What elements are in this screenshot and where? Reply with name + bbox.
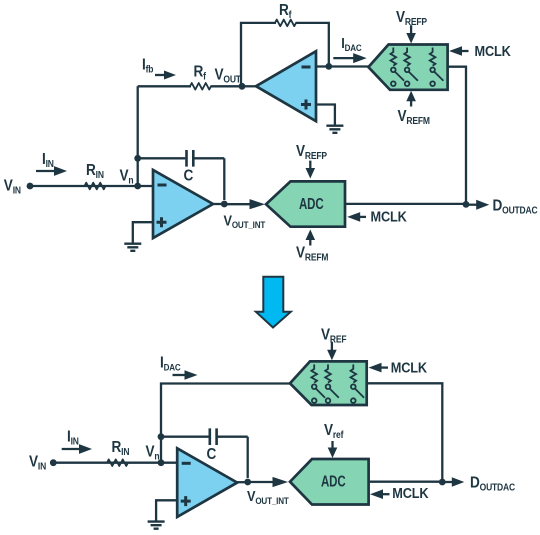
DAC bottom body <box>290 361 367 405</box>
svg-text:VIN: VIN <box>29 454 47 472</box>
svg-text:MCLK: MCLK <box>475 43 511 59</box>
node Vn top <box>120 168 142 190</box>
label VREFM DAC top <box>398 91 431 127</box>
transition arrow <box>256 277 291 328</box>
svg-text:DOUTDAC: DOUTDAC <box>493 198 538 216</box>
DAC bottom switch 3 <box>351 364 365 403</box>
ground A3 <box>148 522 165 529</box>
node DOUTDAC top <box>463 198 538 216</box>
wire input top <box>30 185 153 187</box>
svg-text:VOUT_INT: VOUT_INT <box>247 487 289 506</box>
svg-text:Vref: Vref <box>324 422 344 440</box>
DAC top switch 2 <box>404 48 418 86</box>
svg-text:DOUTDAC: DOUTDAC <box>470 475 515 493</box>
svg-text:Vn: Vn <box>120 168 134 186</box>
svg-text:VREF: VREF <box>321 327 347 345</box>
svg-text:C: C <box>207 446 217 463</box>
svg-text:IIN: IIN <box>67 429 79 447</box>
wire input bottom <box>53 462 177 464</box>
ADC bottom body <box>290 459 369 505</box>
DAC top switch 3 <box>430 48 444 86</box>
wire ADC out bottom <box>369 481 443 483</box>
svg-text:Rf: Rf <box>279 2 292 20</box>
op-amp A2 top <box>256 51 316 121</box>
svg-text:VOUT: VOUT <box>215 67 242 85</box>
op-amp A1 integrator top <box>153 170 213 238</box>
junction cap branch bottom <box>158 433 165 440</box>
svg-text:Vn: Vn <box>146 444 160 462</box>
ground A1 <box>124 244 141 251</box>
resistor RIN top <box>85 162 106 189</box>
svg-text:MCLK: MCLK <box>391 360 427 376</box>
DAC bottom switch 1 <box>311 364 325 403</box>
svg-text:Ifb: Ifb <box>142 57 154 75</box>
label MCLK ADC top <box>347 209 407 225</box>
svg-text:ADC: ADC <box>299 194 324 212</box>
label VREF DAC bottom <box>321 327 347 361</box>
current label IDAC top <box>333 34 366 63</box>
current label IDAC bottom <box>160 355 198 380</box>
svg-text:IIN: IIN <box>42 151 54 169</box>
svg-text:MCLK: MCLK <box>392 485 428 501</box>
DAC bottom switch 2 <box>325 364 339 403</box>
current label IIN top <box>36 151 67 176</box>
svg-text:IDAC: IDAC <box>341 34 362 53</box>
resistor Rf lower <box>138 64 242 90</box>
node VIN top <box>4 178 34 196</box>
svg-text:C: C <box>184 168 194 185</box>
label Vref ADC bottom <box>324 422 344 458</box>
ground A2 <box>326 126 343 133</box>
current label Ifb <box>142 57 176 80</box>
wire Vn vertical top <box>137 86 139 186</box>
node VOUT <box>215 67 257 90</box>
svg-text:ADC: ADC <box>321 472 346 490</box>
DAC top body <box>368 45 447 90</box>
svg-text:VREFM: VREFM <box>398 108 431 126</box>
label MCLK DAC top <box>449 43 511 59</box>
resistor Rf upper feedback <box>241 2 329 86</box>
wire DAC out right top <box>448 67 466 205</box>
wire A1 noninverting to ground <box>133 222 153 243</box>
svg-text:Rf: Rf <box>194 64 207 82</box>
wire A2 noninverting to ground <box>316 105 335 126</box>
label MCLK ADC bottom <box>370 485 429 501</box>
svg-text:RIN: RIN <box>86 162 104 180</box>
node DOUTDAC bottom <box>439 475 515 493</box>
node VOUT_INT top <box>213 199 266 230</box>
DAC top switch 1 <box>391 48 405 86</box>
node VOUT_INT bottom <box>237 477 289 506</box>
svg-text:VIN: VIN <box>4 178 22 196</box>
svg-text:VREFP: VREFP <box>296 143 327 161</box>
capacitor C top <box>138 150 225 200</box>
label VREFP ADC top <box>296 143 327 178</box>
junction cap branch top <box>134 155 141 162</box>
label VREFM ADC top <box>296 230 329 263</box>
svg-text:VREFP: VREFP <box>396 9 427 27</box>
resistor RIN bottom <box>107 439 130 466</box>
label MCLK DAC bottom <box>369 360 428 376</box>
op-amp A3 integrator bottom <box>177 448 237 517</box>
svg-text:VREFM: VREFM <box>296 245 329 263</box>
ADC top body <box>266 181 345 226</box>
label VREFP DAC top <box>396 9 427 43</box>
node Vn bottom <box>146 444 165 467</box>
svg-text:RIN: RIN <box>112 439 130 457</box>
node VIN bottom <box>29 454 57 472</box>
svg-text:MCLK: MCLK <box>371 209 407 225</box>
current label IIN bottom <box>62 429 92 454</box>
wire A2 inverting to DAC <box>316 65 368 67</box>
svg-text:IDAC: IDAC <box>160 355 181 373</box>
wire DAC out right bottom <box>367 383 443 482</box>
node A2 inverting junction <box>325 63 332 70</box>
wire IDAC vertical bottom <box>161 384 290 463</box>
wire ADC out top <box>345 203 466 205</box>
capacitor C bottom <box>161 428 248 478</box>
svg-text:VOUT_INT: VOUT_INT <box>224 211 266 230</box>
wire A3 noninverting to ground <box>156 500 177 521</box>
